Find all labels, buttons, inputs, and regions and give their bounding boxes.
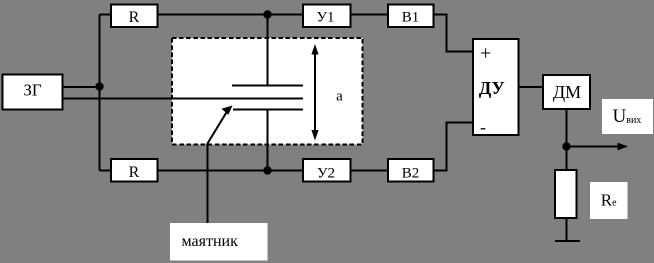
- wire ZG bottom output / capacitor middle plate: [63, 98, 303, 100]
- wire U2 to V2: [351, 170, 387, 172]
- svg-text:У1: У1: [316, 10, 334, 26]
- block V1 (rectifier 1): [388, 5, 434, 28]
- resistor Re (vertical): [555, 170, 577, 218]
- label Uvih: [602, 99, 653, 134]
- svg-text:R: R: [129, 9, 140, 26]
- wire V2 to DU minus input: [435, 123, 473, 171]
- node A junction dot: [95, 82, 103, 90]
- wire ZG top output to node A: [63, 86, 100, 88]
- wire DU output to DM: [520, 86, 543, 88]
- pendulum pointer arrow: [207, 106, 233, 224]
- ground: [555, 240, 580, 242]
- wire DM to node D: [566, 110, 568, 169]
- svg-text:ДМ: ДМ: [553, 82, 581, 102]
- output arrow Uvih: [567, 143, 629, 151]
- wire V1 to DU plus input: [435, 15, 473, 52]
- svg-text:У2: У2: [317, 166, 335, 182]
- svg-text:+: +: [480, 43, 491, 65]
- block V2 (rectifier 2): [388, 159, 434, 182]
- svg-text:маятник: маятник: [182, 233, 239, 250]
- wire vertical bus at x=99.5: [99, 15, 101, 171]
- svg-text:-: -: [480, 117, 486, 137]
- label Re: [590, 182, 628, 219]
- block U1 (amplifier 1): [303, 5, 351, 28]
- node B junction dot top: [263, 10, 271, 18]
- wire Re to ground: [566, 219, 568, 241]
- resistor R bottom: [111, 159, 158, 182]
- node D junction dot: [562, 142, 570, 150]
- block ZG (generator): [3, 75, 63, 110]
- svg-text:a: a: [336, 89, 343, 105]
- node C junction dot bottom: [263, 166, 271, 174]
- wire top rail R to U1: [159, 14, 303, 16]
- capacitor top plate: [232, 85, 303, 87]
- svg-text:R: R: [129, 164, 140, 181]
- capacitor bottom plate: [233, 109, 303, 111]
- block DU (differential amplifier): [473, 39, 519, 137]
- resistor R top: [111, 5, 158, 28]
- svg-text:ЗГ: ЗГ: [23, 81, 42, 100]
- wire bottom plate lead: [267, 110, 269, 171]
- dashed sensor enclosure: [172, 38, 363, 145]
- wire bottom rail R to U2: [159, 170, 303, 172]
- block DM (demodulator): [543, 75, 590, 109]
- block pendulum label (majatnik): [170, 223, 268, 261]
- block U2 (amplifier 2): [303, 159, 351, 182]
- svg-text:ДУ: ДУ: [479, 78, 505, 98]
- wire top rail left segment: [100, 14, 111, 16]
- svg-text:В2: В2: [402, 166, 420, 182]
- wire bottom rail left segment: [100, 170, 111, 172]
- gap dimension double arrow: [311, 44, 318, 141]
- wire top plate lead: [267, 15, 269, 86]
- wire U1 to V1: [352, 14, 388, 16]
- svg-text:В1: В1: [402, 10, 420, 26]
